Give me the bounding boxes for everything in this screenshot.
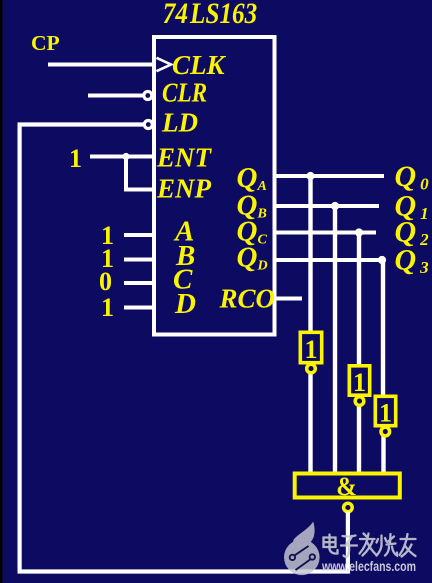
wire Q1 vertical to NAND xyxy=(333,206,337,475)
svg-text:1: 1 xyxy=(379,399,392,428)
watermark logo circuit traces xyxy=(290,546,315,570)
watermark text shao (烧) xyxy=(377,534,398,556)
svg-text:ENP: ENP xyxy=(156,174,212,204)
watermark text dian (电) xyxy=(324,535,338,554)
IC U1 title 74LS163 xyxy=(163,0,258,29)
wire input C xyxy=(124,281,152,285)
watermark text fa (发) xyxy=(360,534,377,556)
pin label B xyxy=(175,240,195,272)
label 1 at B xyxy=(101,244,114,273)
wire Q2 vertical lower (inverter G2 output to NAND) xyxy=(357,405,361,476)
pin label ENP xyxy=(156,174,212,204)
wire input D xyxy=(124,306,152,310)
svg-text:RCO: RCO xyxy=(219,284,276,314)
node label Q1 xyxy=(395,190,429,224)
svg-text:74LS163: 74LS163 xyxy=(163,0,258,29)
label 1 at ENT xyxy=(69,144,82,173)
inverter G1 output bubble xyxy=(307,364,316,373)
node label Q0 xyxy=(395,160,430,194)
watermark url www.elecfans.com xyxy=(321,558,416,574)
wire Q2 vertical upper xyxy=(357,233,361,367)
wire Q0 vertical lower (inverter G1 output to NAND) xyxy=(308,373,312,476)
pin label ENT xyxy=(156,143,213,173)
wire Q3 vertical lower (inverter G3 output to NAND) xyxy=(381,435,385,475)
inverter G2 label 1 xyxy=(353,368,366,397)
NAND gate G4 body xyxy=(295,474,400,498)
wire input B xyxy=(124,258,152,262)
LD inversion bubble xyxy=(144,121,152,129)
label 1 at A xyxy=(101,221,114,250)
wire QA output xyxy=(274,174,384,178)
svg-text:CP: CP xyxy=(31,31,60,55)
wire CLR input xyxy=(88,94,143,98)
junction QC node Q2 xyxy=(355,228,363,236)
inverter G3 output bubble xyxy=(381,427,390,436)
node label Q2 xyxy=(395,216,430,250)
svg-text:D: D xyxy=(174,288,196,320)
wire QC output xyxy=(274,231,376,235)
wire QB output xyxy=(274,204,379,208)
svg-text:CLK: CLK xyxy=(172,50,227,80)
wire Q3 vertical upper xyxy=(381,260,385,396)
pin label A xyxy=(173,216,194,248)
inverter G1 body xyxy=(300,332,321,362)
CLK clock edge triangle xyxy=(157,58,172,71)
junction QB node Q1 xyxy=(331,202,339,210)
left black border strip xyxy=(0,0,3,583)
svg-text:0: 0 xyxy=(99,267,112,296)
node label Q3 xyxy=(395,244,430,278)
svg-text:1: 1 xyxy=(101,293,114,322)
junction ENT/ENP xyxy=(122,153,129,160)
NAND gate G4 output bubble xyxy=(344,503,353,512)
inverter G3 body xyxy=(375,396,395,425)
inverter G2 body xyxy=(349,366,369,395)
IC U1 74LS163 body xyxy=(154,37,275,335)
watermark logo leaf xyxy=(284,522,320,576)
svg-text:LD: LD xyxy=(161,108,198,138)
pin label QB xyxy=(237,190,267,222)
wire Q0 vertical upper xyxy=(308,176,312,332)
pin label CLR xyxy=(162,79,207,108)
svg-text:1: 1 xyxy=(305,335,318,364)
CLR inversion bubble xyxy=(144,92,152,100)
wire CP to CLK xyxy=(48,63,152,67)
svg-text:CLR: CLR xyxy=(162,79,207,108)
node CP label xyxy=(31,31,60,55)
pin label QC xyxy=(237,216,268,248)
NAND gate G4 label & xyxy=(336,472,357,501)
feedback wire NAND output to LD xyxy=(20,125,348,572)
wire RCO stub xyxy=(274,297,302,301)
wire ENT to ENP jumper xyxy=(126,157,152,190)
watermark text zi (子) xyxy=(341,536,357,557)
watermark text you (友) xyxy=(400,534,416,557)
inverter G2 output bubble xyxy=(355,397,364,406)
pin label CLK xyxy=(172,50,227,80)
svg-text:1: 1 xyxy=(353,368,366,397)
wire input A xyxy=(124,233,152,237)
pin label QD xyxy=(237,242,268,274)
junction QD node Q3 xyxy=(378,256,386,264)
junction QA node Q0 xyxy=(306,172,314,180)
pin label QA xyxy=(237,162,267,194)
pin label RCO xyxy=(219,284,276,314)
wire QD output xyxy=(274,258,384,262)
inverter G1 label 1 xyxy=(305,335,318,364)
pin label LD xyxy=(161,108,198,138)
svg-text:1: 1 xyxy=(69,144,82,173)
svg-text:&: & xyxy=(336,472,357,501)
wire ENT input xyxy=(90,155,152,159)
label 1 at D xyxy=(101,293,114,322)
inverter G3 label 1 xyxy=(379,399,392,428)
label 0 at C xyxy=(99,267,112,296)
pin label D xyxy=(174,288,196,320)
svg-text:ENT: ENT xyxy=(156,143,213,173)
pin label C xyxy=(173,264,193,296)
svg-text:www.elecfans.com: www.elecfans.com xyxy=(321,558,416,574)
